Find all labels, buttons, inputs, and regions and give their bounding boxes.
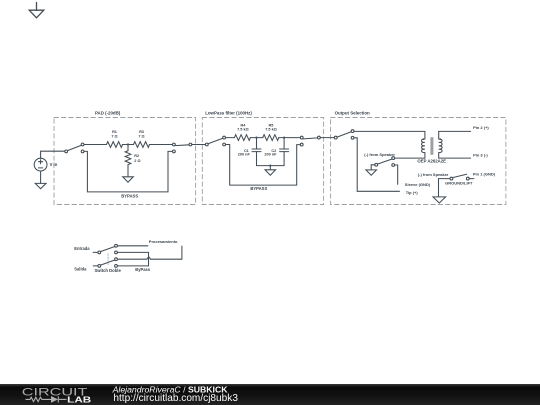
svg-text:Switch Doble: Switch Doble [95,268,122,273]
wire switch to Sleeve [395,165,398,184]
resistor R1 [107,142,123,148]
svg-text:200 nF: 200 nF [238,153,251,157]
switch SW8A (switch doble A) [98,244,118,253]
switch SW6 (speaker minus) [375,157,395,167]
voltage source V1 [34,158,47,171]
wire switch to R1 [84,144,107,146]
svg-text:Sleeve (GND): Sleeve (GND) [405,182,431,187]
svg-text:Pin 3 (-): Pin 3 (-) [473,152,488,157]
ground (stray top-left) [29,3,44,18]
svg-text:http://circuitlab.com/cj8ubk3: http://circuitlab.com/cj8ubk3 [113,393,238,404]
svg-text:Pin 1 (GND): Pin 1 (GND) [473,171,496,176]
wire to Procesamiento [117,245,148,247]
transformer T1 secondary winding [439,131,442,158]
wire switch common to ground [371,165,375,170]
wire R4 to R5 with junction [250,137,262,139]
svg-text:LowPass filter (100Hz): LowPass filter (100Hz) [205,111,252,116]
resistor R4 [234,135,250,141]
wire switch bottom throw to Tip [354,138,400,192]
switch SW2 (PAD output) [173,143,192,153]
wire V source to ground [40,171,42,183]
svg-text:LAB: LAB [67,395,91,404]
wire ground lift node [439,179,451,197]
capacitor C2 [280,138,289,166]
wire PAD out to LowPass [192,144,206,146]
logo glyph resistor + diode [26,396,67,402]
annotation box PAD (-20dB) [54,118,196,205]
switch SW3 (LowPass input) [205,136,225,146]
transformer core [430,137,433,155]
svg-text:V in: V in [50,162,58,167]
footer bar [0,384,540,405]
switch SW1 (PAD input) [65,143,84,153]
svg-text:R2: R2 [134,154,139,158]
svg-text:BYPASS: BYPASS [121,193,138,198]
svg-text:OEP A262A2E: OEP A262A2E [417,158,446,163]
wire LowPass bypass [225,145,300,186]
resistor R5 [263,135,279,141]
node Entrada wire [93,251,98,253]
switch SW8B (switch doble B) [98,258,118,267]
svg-text:Output Selection: Output Selection [335,111,370,116]
wire caps common rail [257,165,285,167]
svg-text:GROUND/LIFT: GROUND/LIFT [445,181,473,186]
svg-text:7 Ω: 7 Ω [138,134,144,138]
gang dashed link [107,254,109,265]
wire R5 to switch with junction [279,137,301,139]
switch SW4 (LowPass output) [300,136,320,146]
svg-text:Entrada: Entrada [74,246,90,251]
wire rail to ground [269,166,271,170]
svg-text:BYPASS: BYPASS [250,186,267,191]
svg-text:7.5 kΩ: 7.5 kΩ [265,128,277,132]
transformer phase dot secondary [439,138,441,140]
ground at speaker switch [366,170,377,175]
wire secondary bottom to Pin 3 [439,157,471,159]
svg-text:(-) from Speaker: (-) from Speaker [418,172,449,177]
svg-text:7.5 kΩ: 7.5 kΩ [237,128,249,132]
wire switch to transformer primary top [354,131,425,139]
svg-text:(-) from Speaker: (-) from Speaker [364,152,395,157]
svg-text:Salida: Salida [74,267,87,272]
svg-text:PAD (-20dB): PAD (-20dB) [95,110,121,115]
switch SW7 GROUND/LIFT [450,174,469,180]
capacitor C1 [252,138,261,166]
svg-text:Tip (+): Tip (+) [406,190,419,195]
wire R1 to R3 with junction [123,144,134,146]
svg-text:Pin 2 (+): Pin 2 (+) [473,125,489,130]
node Salida wire [93,265,98,267]
annotation box LowPass filter [202,118,323,205]
wire R3 to switch [150,144,173,146]
ground at ground/lift [433,197,446,203]
wire throwA2 U to throwB2 [117,252,148,266]
wire V source to switch [41,151,65,158]
resistor R3 [134,142,150,148]
wire primary bottom to speaker switch [395,157,425,159]
annotation box Output Selection [331,118,506,205]
wire switch to R4 [225,137,234,139]
ground under R2 [123,177,134,182]
switch SW5 (Output input) [334,130,354,140]
svg-text:Procesamiento: Procesamiento [149,239,178,244]
svg-text:7 Ω: 7 Ω [111,134,117,138]
transformer T1 primary winding [422,139,425,158]
ground under V source [35,183,46,188]
ground under caps [265,170,276,175]
wire PAD bypass [84,151,173,192]
resistor R2 [125,145,131,177]
wire to Pin 1 [469,178,474,180]
wire LowPass out to Output section [320,137,334,139]
svg-text:200 nF: 200 nF [264,153,277,157]
transformer phase dot primary [422,138,424,140]
svg-text:ByPass: ByPass [135,267,151,272]
wire ByPass with hop [117,246,182,259]
svg-text:2 Ω: 2 Ω [134,159,140,163]
wire secondary top to Pin 2 [439,130,471,132]
